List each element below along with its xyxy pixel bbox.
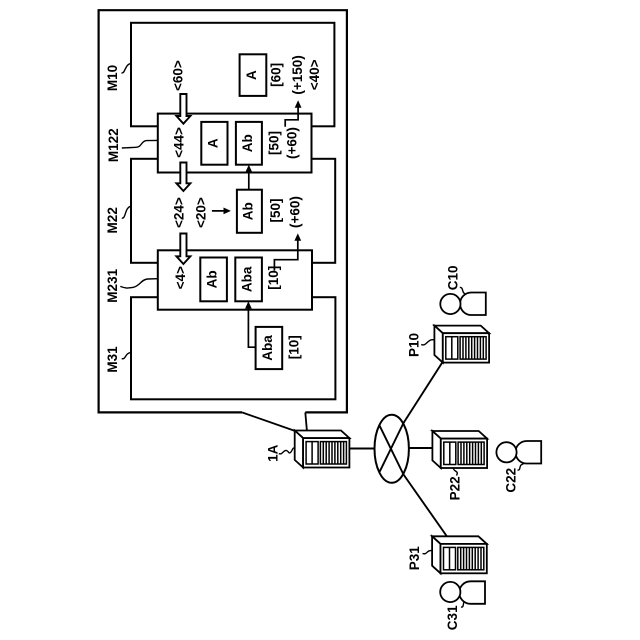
svg-text:M31: M31: [105, 346, 120, 373]
svg-text:Ab: Ab: [240, 134, 255, 152]
svg-text:C22: C22: [504, 468, 519, 493]
svg-text:M122: M122: [106, 128, 121, 162]
svg-text:A: A: [244, 70, 259, 80]
network switch ellipse: [375, 415, 409, 483]
leader squiggle P10: [421, 339, 442, 345]
svg-text:[10]: [10]: [266, 266, 281, 290]
svg-text:M231: M231: [105, 268, 120, 302]
arrow Aba(M31) to Aba(M231): [248, 306, 255, 348]
leader squiggle P22: [453, 467, 457, 475]
svg-text:P31: P31: [407, 546, 422, 571]
switch X diagonal 2: [380, 423, 404, 472]
server P31: [432, 536, 487, 573]
arrow Ab(M22) to Ab(M122): [248, 169, 250, 190]
svg-text:P22: P22: [448, 476, 463, 500]
arrow 20 to Ab(M22): [212, 210, 228, 212]
person C22: [496, 441, 541, 464]
svg-text:(+60): (+60): [288, 196, 303, 228]
bridge box M231: [158, 250, 312, 309]
leader squiggle C10: [460, 287, 466, 294]
leader squiggle M122: [122, 140, 158, 148]
bracket arrow M122 to (+150) in M10: [285, 105, 298, 127]
box Ab in M231: [200, 258, 227, 302]
wire switch to P10: [404, 362, 443, 424]
block arrow 44 (M122 to M22): [176, 163, 190, 192]
svg-text:(+150): (+150): [290, 55, 305, 94]
svg-text:1A: 1A: [266, 444, 281, 462]
svg-text:<4>: <4>: [173, 266, 188, 289]
box Ab in M122: [236, 122, 262, 165]
svg-text:<60>: <60>: [171, 60, 186, 91]
svg-text:[60]: [60]: [269, 63, 284, 87]
module box M22: [131, 159, 335, 263]
svg-text:C31: C31: [445, 605, 460, 630]
box Aba in M231: [235, 258, 262, 302]
bridge box M122: [158, 114, 312, 173]
svg-text:P10: P10: [406, 333, 421, 357]
leader squiggle M31: [122, 352, 132, 358]
arrowhead 20: [224, 208, 231, 215]
svg-text:Aba: Aba: [260, 335, 275, 361]
leader squiggle C22: [518, 464, 524, 470]
wire switch to P31: [404, 475, 448, 537]
arrowhead +60 up: [294, 233, 301, 240]
svg-text:(+60): (+60): [284, 127, 299, 159]
module box M10: [131, 23, 334, 127]
svg-text:Ab: Ab: [240, 202, 255, 220]
block arrow 60 (M10 to M122): [176, 94, 190, 124]
svg-text:M22: M22: [105, 207, 120, 233]
leader squiggle M22: [122, 206, 132, 218]
wire switch to P22: [409, 447, 441, 449]
leader squiggle M231: [120, 279, 157, 288]
svg-text:<20>: <20>: [194, 197, 209, 228]
svg-text:Aba: Aba: [240, 266, 255, 292]
funnel right line: [305, 412, 307, 430]
svg-text:<40>: <40>: [307, 59, 322, 90]
svg-text:<24>: <24>: [172, 197, 187, 228]
arrowhead +150 up: [295, 100, 302, 107]
server 1A: [295, 431, 350, 468]
leader squiggle 1A: [279, 448, 294, 454]
module box M31: [131, 297, 335, 399]
box Aba in M31: [256, 327, 283, 369]
svg-text:[50]: [50]: [266, 131, 281, 155]
svg-text:<44>: <44>: [172, 127, 187, 158]
svg-text:M10: M10: [105, 65, 120, 91]
funnel left line: [242, 412, 295, 431]
server P22: [432, 431, 487, 468]
svg-text:A: A: [205, 138, 220, 148]
svg-text:[50]: [50]: [268, 198, 283, 222]
box A in M10: [240, 54, 267, 96]
person C10: [440, 293, 486, 316]
leader squiggle P31: [423, 551, 433, 554]
svg-text:[10]: [10]: [287, 335, 302, 359]
outer system box 1A (open at funnel): [99, 10, 347, 412]
leader squiggle M10: [122, 64, 132, 73]
wire 1A to switch: [350, 448, 375, 450]
person C31: [440, 581, 485, 604]
svg-text:C10: C10: [445, 266, 460, 291]
box Ab in M22: [237, 190, 262, 233]
arrowhead Ab up: [245, 165, 252, 172]
svg-text:Ab: Ab: [205, 270, 220, 288]
leader squiggle C31: [461, 601, 466, 607]
switch X diagonal 1: [380, 426, 404, 475]
block arrow 4 (M22 to M231): [176, 234, 190, 265]
arrowhead Aba up: [245, 301, 252, 308]
bracket arrow M231 to (+60) in M22: [274, 238, 297, 271]
server P10: [434, 326, 489, 363]
box A in M122: [201, 122, 227, 165]
